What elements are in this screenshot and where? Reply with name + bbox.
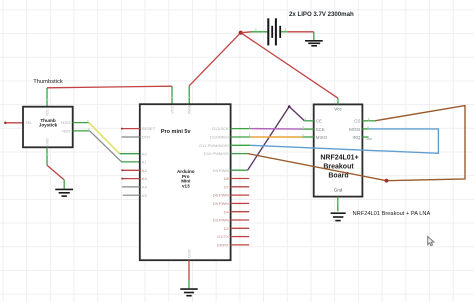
svg-text:SCK: SCK — [316, 127, 325, 132]
wire D10 stub (green) — [231, 153, 248, 155]
wire D12 stub (green) — [231, 136, 251, 138]
svg-text:A0: A0 — [142, 151, 148, 156]
svg-text:D11 PWM/MOSI: D11 PWM/MOSI — [199, 143, 228, 148]
ground symbol NRF — [331, 213, 346, 220]
svg-text:D3 PWM: D3 PWM — [213, 218, 229, 223]
wire A0 stub (green) — [120, 153, 140, 155]
svg-text:NRF24L01 Breakout + PA LNA: NRF24L01 Breakout + PA LNA — [353, 211, 431, 217]
wire U1 GND (red vertical) — [188, 260, 190, 280]
wire D11 stub (green) — [231, 144, 251, 146]
battery BT1 2x LIPO — [268, 18, 280, 45]
svg-text:A4: A4 — [142, 185, 148, 190]
wire battery+ to NRF Vcc (red diagonal) — [241, 33, 338, 99]
svg-text:A2: A2 — [142, 168, 148, 173]
svg-text:2x LIPO 3.7V 2300mah: 2x LIPO 3.7V 2300mah — [289, 11, 354, 18]
svg-text:IRQ: IRQ — [352, 135, 360, 140]
svg-text:RAW: RAW — [187, 104, 192, 113]
wire DTR (gray, loose) — [122, 136, 140, 138]
wire D1 pin (red unconnected) — [231, 236, 250, 238]
pin end tick battery right — [285, 28, 287, 31]
svg-text:v13: v13 — [182, 184, 190, 189]
ground symbol thumb joystick — [55, 189, 73, 196]
wire HORZ stub (green) — [73, 122, 89, 124]
pin end tick MISO — [302, 134, 304, 137]
wire CE stub (green) — [304, 120, 313, 122]
svg-text:D12/MISO: D12/MISO — [210, 135, 229, 140]
wire RESET (red, loose) — [121, 128, 140, 130]
svg-text:DTR: DTR — [142, 135, 150, 140]
svg-text:Joystick: Joystick — [39, 123, 58, 128]
svg-text:D9 PWM: D9 PWM — [213, 168, 229, 173]
svg-text:GND: GND — [45, 138, 49, 146]
wire A3 (red, loose) — [121, 178, 140, 180]
wire D6 pin (red unconnected) — [231, 194, 250, 196]
pin end tick NRF Vcc — [337, 99, 340, 101]
svg-text:GND: GND — [186, 249, 191, 258]
pin end tick D13 — [249, 126, 251, 129]
junction battery+ node — [239, 31, 243, 35]
svg-text:A1: A1 — [142, 160, 148, 165]
svg-text:MOSI: MOSI — [349, 127, 360, 132]
wire MISO stub (green) — [302, 136, 314, 138]
svg-text:D0/RX: D0/RX — [217, 243, 229, 248]
wire VERT to A1 (gray diagonal) — [90, 131, 122, 162]
wire CE bendpoint to NRF (purple diagonal down) — [289, 107, 304, 121]
wire Thumbstick net (red horizontal to U1 VCC) — [47, 86, 172, 88]
wire D5 pin (red unconnected) — [231, 202, 250, 204]
wire U1 RAW stub (green) — [188, 86, 190, 104]
svg-text:Vcc: Vcc — [334, 107, 342, 112]
svg-text:D1/TX: D1/TX — [217, 234, 229, 239]
svg-text:VCC: VCC — [169, 105, 174, 114]
wire U1 GND drop (green) — [188, 280, 190, 288]
wire battery- to ground (red) — [288, 31, 314, 33]
junction brown wire bendpoint — [385, 179, 389, 183]
svg-text:Thumbstick: Thumbstick — [33, 79, 63, 85]
pin end tick D12 — [249, 134, 251, 137]
svg-text:MISO: MISO — [316, 135, 328, 140]
wire HORZ to A0 (yellow diagonal) — [89, 123, 120, 154]
wire NRF Gnd stub (green) — [337, 197, 339, 212]
svg-text:VERT: VERT — [62, 129, 71, 133]
mouse cursor — [428, 237, 434, 246]
wire battery+ short red — [241, 31, 252, 34]
svg-text:A5: A5 — [142, 193, 148, 198]
pin end tick VERT — [88, 128, 90, 131]
wire thumb GND drop (green) — [63, 180, 65, 189]
wire NRF Vcc stub (green) — [337, 98, 339, 104]
wire D11 to MOSI (blue routed right) — [250, 129, 438, 153]
svg-text:A3: A3 — [142, 176, 148, 181]
svg-text:D4: D4 — [224, 209, 230, 214]
wire D0 pin (red unconnected) — [231, 244, 250, 246]
svg-text:D5 PWM: D5 PWM — [213, 201, 229, 206]
pin end tick SCK — [302, 126, 304, 129]
wire MOSI stub (green) — [362, 128, 368, 130]
wire D12 to MISO (orange) — [250, 136, 302, 138]
svg-text:D13/SCK: D13/SCK — [212, 126, 229, 131]
wire thumb GND (green vertical) — [46, 147, 48, 165]
svg-text:D2: D2 — [224, 226, 230, 231]
ground symbol battery — [305, 41, 323, 46]
no-connect mark IRQ — [367, 138, 372, 140]
pin end tick HORZ — [87, 120, 89, 123]
svg-text:D7: D7 — [224, 184, 230, 189]
wire SEL (red, loose end) — [4, 122, 23, 125]
wire SCK stub (green) — [302, 128, 314, 130]
svg-text:Pro mini 5v: Pro mini 5v — [161, 129, 192, 135]
wire VERT stub (green) — [73, 130, 90, 132]
wire D3 pin (red unconnected) — [231, 219, 250, 221]
thumb joystick J1 body — [23, 107, 73, 148]
svg-text:RESET: RESET — [142, 126, 156, 131]
junction CE bendpoint — [288, 105, 291, 108]
wire A4 (gray, loose) — [122, 186, 140, 188]
wire battery+ to RAW (red diagonal) — [189, 33, 241, 86]
pin end tick MOSI — [367, 126, 369, 129]
wire D13 to SCK (orchid) — [250, 128, 302, 131]
wire D4 pin (red unconnected) — [231, 211, 250, 213]
svg-text:HORZ: HORZ — [61, 121, 71, 125]
wire D9 to CE (purple diagonal up) — [248, 107, 290, 171]
svg-text:D8: D8 — [224, 176, 230, 181]
svg-text:Gnd: Gnd — [334, 188, 343, 193]
wire battery left pin stub (green) — [251, 31, 268, 33]
pin end tick NRF Gnd — [336, 201, 339, 203]
svg-text:SEL: SEL — [26, 121, 33, 125]
wire A5 (gray, loose) — [123, 194, 140, 196]
wire D7 pin (red unconnected) — [231, 186, 250, 188]
svg-text:CS: CS — [354, 119, 360, 124]
wire thumbstick VCC (green vertical) — [46, 88, 48, 107]
pin end tick thumbstick VCC — [46, 99, 49, 101]
svg-text:NRF24L01+: NRF24L01+ — [320, 154, 358, 161]
wire D13 stub (green) — [231, 128, 251, 130]
wire thumb GND (red diagonal) — [47, 165, 64, 180]
wire A2 (red, loose) — [121, 169, 140, 171]
wire D9 stub (green) — [231, 169, 248, 171]
wire D8 pin (red unconnected) — [231, 178, 250, 180]
svg-text:D6 PWM: D6 PWM — [213, 193, 229, 198]
svg-text:D10 PWM/SS: D10 PWM/SS — [204, 151, 229, 156]
svg-text:VCC: VCC — [45, 108, 49, 116]
wire D2 pin (red unconnected) — [231, 227, 250, 229]
svg-text:CE: CE — [316, 119, 322, 124]
pin end tick CS — [368, 118, 370, 121]
wire CS stub (green) — [362, 120, 375, 122]
arduino pro mini U1 body — [140, 104, 231, 260]
wire battery right pin stub (green) — [281, 31, 288, 33]
NRF24L01 breakout U2 body — [314, 104, 363, 196]
ground symbol pro mini — [180, 289, 197, 296]
pin end tick thumb GND — [46, 154, 49, 156]
pin end tick battery left — [255, 28, 257, 31]
wire A1 stub (green) — [122, 161, 140, 163]
wire D10 to CS (brown routed right) — [248, 106, 465, 181]
pin end tick CE — [304, 118, 306, 121]
wire U1 VCC stub (green) — [171, 86, 173, 104]
wire battery ground drop (green) — [313, 32, 315, 40]
wire IRQ stub (green, unrouted) — [362, 136, 368, 138]
